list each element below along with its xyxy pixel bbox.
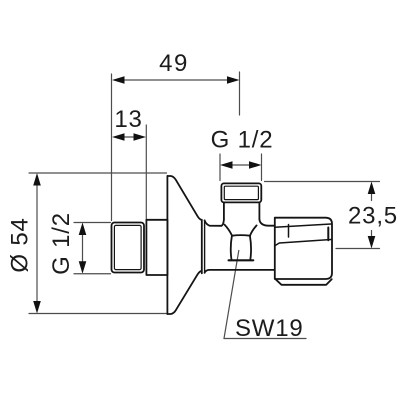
stem barrel top [232,234,250,237]
extension line 23,5 top [265,181,380,183]
wall thread G1/2 outer [112,223,145,273]
arrowhead G1/2 right [249,161,262,169]
arrowhead Ø54 down [33,301,41,314]
svg-text:49: 49 [159,50,189,77]
svg-text:23,5: 23,5 [348,203,398,230]
extension line G1/2 right [261,154,263,181]
ring outer line [201,220,203,274]
arrowhead Ø54 up [33,173,41,186]
body top-left curve [205,220,222,225]
right flare to body [259,219,274,225]
dimension line G1/2 left vertical [82,227,84,269]
left flare to body [221,219,224,225]
extension line right of 49 [239,72,241,115]
dimension line 13 [116,136,142,138]
funnel right to stem [250,225,257,235]
arrowhead 13 left [112,133,125,141]
dimension line 23,5 upper stem [371,192,373,201]
dimension line 23,5 lower stem [371,231,373,238]
dimension line Ø54 [36,178,38,309]
nut right inner stripe [327,228,329,241]
flange cone top [167,176,201,220]
wall thread inner lines [114,225,141,269]
extension line G1/2-left bottom [74,273,111,275]
ring inner line [204,220,206,273]
extension line Ø54 top [29,172,167,174]
stem barrel left side [231,236,232,260]
svg-text:13: 13 [114,106,142,133]
dimension line G 1/2 top [224,164,257,166]
dimension line 49 [116,79,235,81]
arrowhead G1/2-left up [79,223,87,236]
svg-text:G 1/2: G 1/2 [48,212,75,275]
flange face [166,176,168,314]
extension line left of 49/13 [111,74,113,221]
extension line right of 13 [145,125,147,219]
fitting collar left [223,202,225,219]
svg-text:Ø 54: Ø 54 [7,217,34,272]
arrowhead G1/2 left [220,161,233,169]
arrowhead G1/2-left down [79,261,87,274]
fitting collar right [258,202,260,219]
extension line Ø54 bottom [29,313,167,315]
stem barrel right side [250,236,251,260]
fitting thread inner [224,186,258,199]
flange cone bottom [167,271,201,314]
fitting thread outer [221,183,261,202]
arrowhead 23,5 down [368,236,376,249]
leader line SW19 [224,251,239,339]
arrowhead 49 left [112,76,125,84]
stem barrel bottom [229,259,254,261]
nut bottom chamfer [276,279,332,285]
arrowhead 13 right [134,133,147,141]
nut outline [275,218,332,279]
svg-text:G 1/2: G 1/2 [211,127,274,154]
hub behind flange [146,220,167,275]
leader underline SW19 [224,338,306,340]
nut mid chamfer line [275,240,331,246]
extension line G1/2 left [219,154,221,181]
funnel left to stem [225,225,232,236]
arrowhead 49 right [227,76,240,84]
extension line 23,5 bottom [336,248,380,250]
nut flat edge vertical [288,225,290,238]
arrowhead 23,5 up [368,182,376,195]
body bottom edge [205,270,275,273]
nut top chamfer line [275,224,331,227]
extension line G1/2-left top [74,222,111,224]
